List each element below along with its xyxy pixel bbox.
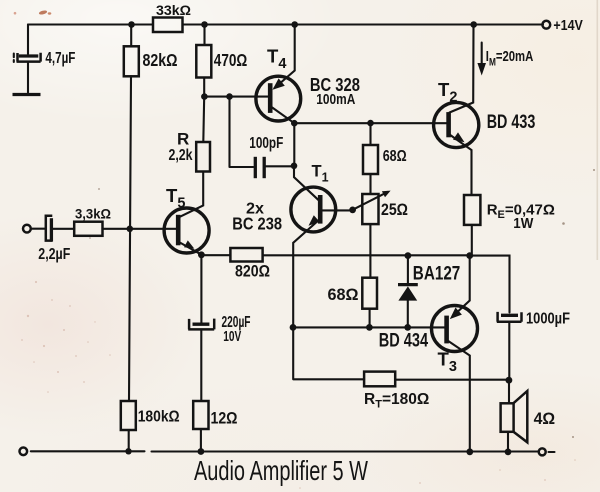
svg-text:2,2µF: 2,2µF — [38, 246, 70, 263]
svg-text:68Ω: 68Ω — [328, 285, 359, 304]
svg-text:IM=20mA: IM=20mA — [486, 48, 534, 68]
svg-text:1W: 1W — [513, 216, 533, 232]
svg-text:+14V: +14V — [553, 18, 583, 34]
svg-text:470Ω: 470Ω — [214, 50, 248, 70]
svg-text:25Ω: 25Ω — [381, 201, 408, 219]
svg-text:82kΩ: 82kΩ — [143, 50, 178, 70]
svg-text:T2: T2 — [438, 79, 457, 106]
svg-text:12Ω: 12Ω — [211, 409, 238, 428]
svg-text:100mA: 100mA — [316, 91, 355, 108]
svg-text:100pF: 100pF — [249, 135, 283, 152]
svg-text:Audio Amplifier 5 W: Audio Amplifier 5 W — [194, 455, 368, 486]
svg-text:BD 434: BD 434 — [379, 330, 429, 351]
svg-text:3,3kΩ: 3,3kΩ — [75, 206, 111, 222]
svg-text:820Ω: 820Ω — [235, 262, 270, 280]
svg-text:2,2k: 2,2k — [169, 147, 193, 164]
svg-text:T1: T1 — [312, 163, 329, 185]
svg-text:T4: T4 — [267, 46, 286, 73]
svg-text:BA127: BA127 — [413, 264, 461, 285]
svg-text:RT=180Ω: RT=180Ω — [364, 391, 429, 411]
svg-text:1000µF: 1000µF — [526, 311, 570, 328]
svg-text:10V: 10V — [223, 329, 241, 345]
svg-text:T5: T5 — [166, 185, 185, 212]
svg-text:33kΩ: 33kΩ — [156, 2, 191, 18]
svg-text:4Ω: 4Ω — [534, 410, 556, 428]
svg-text:180kΩ: 180kΩ — [138, 409, 180, 426]
svg-text:4,7µF: 4,7µF — [45, 50, 75, 67]
svg-text:BC 238: BC 238 — [232, 214, 282, 234]
svg-text:68Ω: 68Ω — [383, 148, 407, 165]
svg-text:R: R — [177, 130, 189, 149]
svg-text:BD 433: BD 433 — [487, 112, 536, 133]
